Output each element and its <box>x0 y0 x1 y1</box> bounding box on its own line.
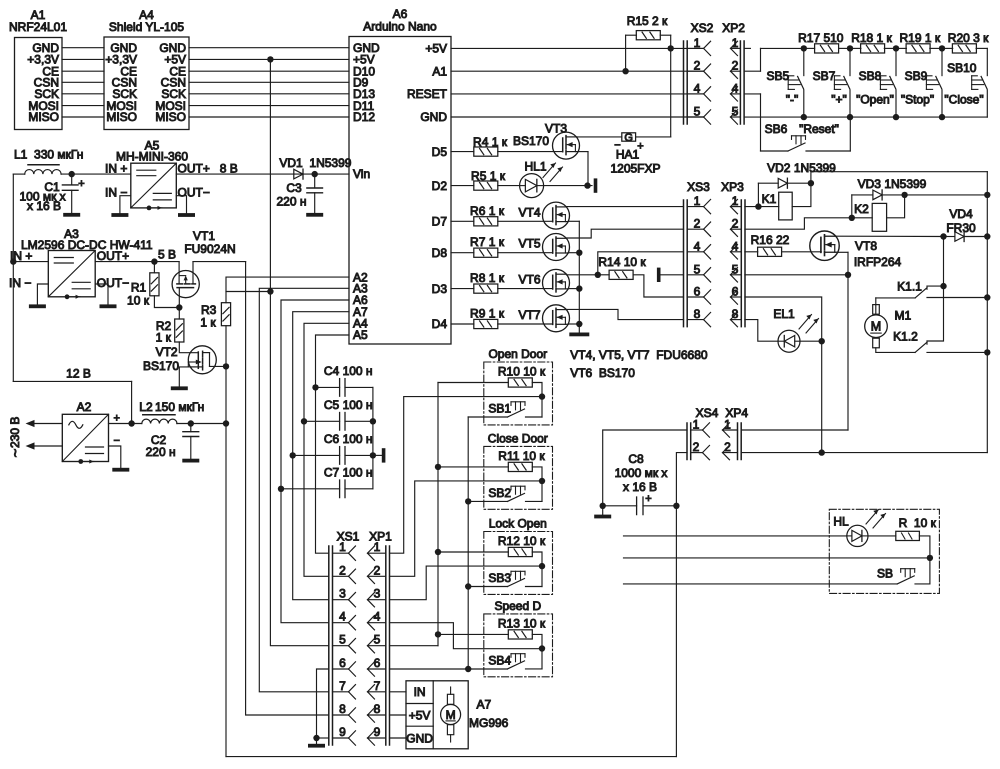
svg-text:2: 2 <box>732 217 739 231</box>
svg-text:SB8: SB8 <box>859 69 882 83</box>
svg-text:FU9024N: FU9024N <box>184 242 235 256</box>
svg-text:SB3: SB3 <box>488 571 511 585</box>
resistor R7 <box>474 248 498 257</box>
wire 12V from left edge <box>13 380 131 382</box>
wire A5 OUT- to ground <box>176 196 186 213</box>
svg-text:A2: A2 <box>77 400 92 414</box>
svg-text:XS3: XS3 <box>687 180 710 194</box>
wire K1 right up to supply rail <box>792 172 987 207</box>
svg-text:Vin: Vin <box>353 167 370 181</box>
svg-text:R12 10 к: R12 10 к <box>498 534 546 548</box>
transistor VT8 IRFP264 <box>810 231 839 260</box>
svg-text:6: 6 <box>732 285 739 299</box>
svg-text:IN: IN <box>414 685 426 699</box>
wire VT8 drain to VD4 <box>836 235 944 237</box>
wire D5 to R4 <box>451 151 474 153</box>
wire D7 to R6 <box>451 220 474 222</box>
node +5V on A4-A6 wire <box>267 56 273 62</box>
wire XP3 pin1 to K1 <box>745 206 779 208</box>
svg-text:XP1: XP1 <box>369 530 392 544</box>
svg-text:4: 4 <box>339 610 346 624</box>
svg-text:1 к: 1 к <box>200 316 216 330</box>
svg-text:VT8: VT8 <box>855 239 877 253</box>
wire A5 IN- to ground <box>120 196 131 213</box>
svg-text:BS170: BS170 <box>513 134 549 148</box>
svg-text:+: + <box>645 493 651 505</box>
block A7 MG996 <box>406 681 468 749</box>
ladder bottom rail (GND from XP2 pin5) <box>744 116 987 118</box>
wire VT4 source to rail <box>568 220 579 222</box>
capacitor C6 <box>290 452 296 458</box>
dashed box Close Door <box>484 446 553 509</box>
wire L2 to C2 node <box>177 423 226 425</box>
source rail of VT4-VT7 <box>578 221 580 332</box>
svg-text:C8: C8 <box>628 452 644 466</box>
diode VD2 1N5399 <box>757 183 759 206</box>
button SB7 <box>849 48 851 75</box>
wire A5 OUT+ 8V to Vin <box>176 173 349 175</box>
svg-text:GND: GND <box>420 110 447 124</box>
svg-text:R20 3 к: R20 3 к <box>948 31 989 45</box>
contact K1.2 <box>876 348 915 353</box>
svg-text:VT6 BS170: VT6 BS170 <box>570 366 635 380</box>
capacitor C5 <box>301 418 307 424</box>
svg-text:K2: K2 <box>854 202 869 216</box>
svg-text:BS170: BS170 <box>143 359 179 373</box>
svg-text:8 В: 8 В <box>220 161 238 175</box>
svg-text:2: 2 <box>693 440 700 454</box>
wire R to corner <box>919 536 930 584</box>
svg-text:+: + <box>78 178 84 190</box>
svg-text:+: + <box>114 413 120 425</box>
wire XP1 pin3 riser <box>390 566 543 600</box>
svg-text:M: M <box>446 708 456 722</box>
svg-text:R14 10 к: R14 10 к <box>598 255 646 269</box>
svg-text:R7 1 к: R7 1 к <box>470 235 505 249</box>
svg-text:OUT−: OUT− <box>97 276 129 290</box>
svg-text:6: 6 <box>694 285 701 299</box>
diode VD4 FR30 <box>944 236 955 238</box>
button SB <box>897 576 914 584</box>
svg-text:R13 10 к: R13 10 к <box>498 616 546 630</box>
wire XP4 pin2 to right rail <box>741 452 987 454</box>
resistor R16 <box>758 247 782 256</box>
svg-text:8: 8 <box>339 702 346 716</box>
svg-text:+5V: +5V <box>409 708 431 722</box>
resistor R15 <box>636 31 660 40</box>
svg-text:SB9: SB9 <box>905 69 928 83</box>
wire K1.2 lower contact to rail <box>927 351 987 353</box>
wire A2 out- to ground <box>109 446 121 468</box>
svg-text:IRFP264: IRFP264 <box>854 255 902 269</box>
+5V vertical to XS1 pin5 <box>270 59 328 645</box>
wire VT6 drain to node <box>567 274 598 276</box>
svg-text:VD3 1N5399: VD3 1N5399 <box>858 177 927 191</box>
wire VT1 gate down <box>178 288 180 308</box>
svg-text:9: 9 <box>374 725 381 739</box>
svg-text:VT1: VT1 <box>193 229 215 243</box>
block A4 Shield YL-105 <box>104 37 189 130</box>
button SB6 Reset <box>744 93 760 95</box>
svg-text:HL: HL <box>833 515 849 529</box>
svg-text:R18 1 к: R18 1 к <box>851 31 892 45</box>
wire K2 right to VD3 cathode line <box>887 195 905 218</box>
svg-text:MISO: MISO <box>28 110 59 124</box>
wire VT5 source to rail <box>568 252 579 254</box>
svg-text:220 н: 220 н <box>146 445 176 459</box>
wire R12 to junction <box>532 552 542 587</box>
svg-text:5: 5 <box>694 262 701 276</box>
svg-text:HL1: HL1 <box>524 160 546 174</box>
svg-text:C3: C3 <box>286 181 302 195</box>
svg-text:R4 1 к: R4 1 к <box>473 135 508 149</box>
wire A3 OUT- to ground <box>95 284 108 304</box>
svg-text:"Reset": "Reset" <box>799 122 839 136</box>
svg-text:2: 2 <box>732 59 739 73</box>
svg-text:SB7: SB7 <box>813 69 836 83</box>
resistor R3 <box>221 303 230 326</box>
input arrows 230V <box>32 423 62 425</box>
wire XP1 pin9 to A7 GND <box>390 737 407 739</box>
wire VD4 node down to K1.1 contact <box>943 237 945 287</box>
resistor R6 <box>474 217 498 226</box>
wire R11 to junction <box>532 467 542 502</box>
wires A1 to A4 <box>62 47 104 49</box>
svg-text:OUT+: OUT+ <box>97 249 129 263</box>
wire A7 pin to XS1 pin3 <box>293 312 349 600</box>
svg-text:VT2: VT2 <box>156 345 178 359</box>
resistor R2 <box>175 319 184 342</box>
button SB10 <box>986 48 988 75</box>
svg-text:HA1: HA1 <box>616 148 640 162</box>
wire R9 to VT7 gate <box>498 323 553 325</box>
wire VT2 source to ground <box>179 367 188 387</box>
svg-text:VT6: VT6 <box>518 273 540 287</box>
svg-text:4: 4 <box>732 81 739 95</box>
svg-text:1: 1 <box>693 418 700 432</box>
wire XP1 pin6 to SB4 <box>390 668 508 670</box>
button SB9 <box>941 48 943 75</box>
wire VT3 source down <box>578 151 588 153</box>
wire VT1 drain 5V to XS1 pin8 <box>246 262 329 715</box>
dashed box Open Door <box>484 362 553 425</box>
svg-text:1: 1 <box>732 194 739 208</box>
svg-text:6: 6 <box>339 656 346 670</box>
wire VT6 source to rail <box>568 288 579 290</box>
wire XS4 pin2 to C8 right <box>676 453 687 506</box>
wire K1.1 lower contact to rail <box>927 297 987 299</box>
svg-text:VT5: VT5 <box>518 237 540 251</box>
svg-text:8: 8 <box>732 307 739 321</box>
svg-text:EL1: EL1 <box>773 307 795 321</box>
wire HL1 to common <box>544 185 592 187</box>
wire GND A6 to XS2 <box>451 116 704 118</box>
wire XP3 pin4 to R16 <box>745 251 758 253</box>
svg-text:1205FXP: 1205FXP <box>610 162 660 176</box>
capacitor C1 <box>71 174 73 185</box>
transistor VT6 <box>543 269 570 296</box>
svg-text:1000 мк х: 1000 мк х <box>615 466 668 480</box>
wire A3 pin to XS1 pin7 <box>259 288 349 692</box>
svg-text:D7: D7 <box>432 215 448 229</box>
wire R5 to HL1 <box>498 185 520 187</box>
LED HL <box>847 525 868 546</box>
LED EL1 <box>778 330 800 352</box>
wire D8 to R7 <box>451 252 474 254</box>
wire A3 IN- to ground <box>37 284 48 304</box>
svg-text:M: M <box>871 320 881 334</box>
svg-text:D5: D5 <box>432 145 448 159</box>
wire VT7 drain to XS3 pin8 <box>567 309 684 319</box>
resistor R20 <box>942 47 953 49</box>
svg-text:5: 5 <box>694 105 701 119</box>
resistor R14 <box>598 274 609 276</box>
block A1 NRF24L01 <box>15 38 63 130</box>
svg-text:9: 9 <box>339 725 346 739</box>
dashed box Lock Open <box>484 532 553 595</box>
svg-text:2: 2 <box>374 563 381 577</box>
ground under C1 <box>63 213 80 217</box>
wire VT8 source to XP3 pin5 and XP4 pin1 <box>745 274 848 276</box>
svg-text:"Open": "Open" <box>856 93 894 107</box>
svg-text:SB2: SB2 <box>488 486 511 500</box>
button SB3 <box>468 586 507 588</box>
svg-text:+5V: +5V <box>425 42 447 56</box>
svg-text:R 10 к: R 10 к <box>899 516 937 530</box>
svg-text:OUT+: OUT+ <box>178 161 210 175</box>
resistor R13 <box>438 633 508 635</box>
svg-text:VT4: VT4 <box>518 205 540 219</box>
wire VT7 source to rail <box>568 323 579 325</box>
transistor VT7 <box>543 305 570 332</box>
svg-text:R6 1 к: R6 1 к <box>470 204 505 218</box>
svg-text:MG996: MG996 <box>469 716 509 730</box>
svg-text:R11 10 к: R11 10 к <box>498 449 545 463</box>
transistor VT3 BS170 <box>553 132 580 159</box>
svg-text:GND: GND <box>406 732 433 746</box>
wires A4 to A6 <box>189 47 349 49</box>
wire XP1 pin4 jog <box>390 623 543 649</box>
svg-text:C6 100 н: C6 100 н <box>324 432 373 446</box>
wire XP3 pin6 down to EL1 node <box>745 297 822 453</box>
wire K1.1 node down to K1.2 contact <box>927 286 944 341</box>
svg-text:SB6: SB6 <box>765 122 788 136</box>
wire D3 to R8 <box>451 288 474 290</box>
wire R15 right down to HA1 <box>660 34 670 36</box>
svg-text:MISO: MISO <box>155 110 186 124</box>
wire RESET A6 to XS2 <box>451 93 704 95</box>
svg-text:SB1: SB1 <box>488 402 511 416</box>
svg-text:Speed D: Speed D <box>494 599 541 613</box>
pull-up rail for R10-R13 <box>437 383 439 646</box>
ladder top rail <box>761 47 804 49</box>
wire D4 to R9 <box>451 323 474 325</box>
svg-text:MISO: MISO <box>106 110 137 124</box>
svg-text:1: 1 <box>339 540 346 554</box>
wire XS1 pin9 to ground <box>317 737 329 739</box>
svg-text:K1.1: K1.1 <box>897 280 922 294</box>
svg-text:1: 1 <box>694 194 701 208</box>
relay coil K1 <box>779 192 793 220</box>
button SB1 <box>468 416 507 418</box>
svg-text:10 к: 10 к <box>127 294 150 308</box>
wire R14 to XS3 pin6 <box>633 275 683 297</box>
svg-text:C7 100 н: C7 100 н <box>324 466 373 480</box>
wire R13 to junction <box>532 634 542 669</box>
wire VT3 drain to HA1 <box>577 136 622 138</box>
button SB2 <box>468 500 507 502</box>
svg-text:2: 2 <box>724 440 731 454</box>
wire XP3 pin8 to EL1 anode <box>745 320 778 342</box>
svg-text:R5 1 к: R5 1 к <box>471 169 506 183</box>
svg-text:D8: D8 <box>432 246 448 260</box>
svg-text:SB: SB <box>877 567 893 581</box>
ground under VT rail <box>569 333 589 337</box>
svg-text:R10 10 к: R10 10 к <box>498 365 546 379</box>
dashed box Speed D <box>484 614 553 677</box>
svg-text:D12: D12 <box>353 110 375 124</box>
svg-text:1: 1 <box>694 36 701 50</box>
bottom rail <box>226 756 676 758</box>
wire A3 OUT+ 5V <box>95 261 179 263</box>
wire A4 pin to XS1 pin2 <box>304 323 349 576</box>
wire A6 pin to XS1 pin4 <box>281 300 349 623</box>
ground under C8 <box>602 506 604 515</box>
svg-text:OUT−: OUT− <box>178 186 210 200</box>
svg-text:SB4: SB4 <box>488 653 511 667</box>
servo motor symbol in A7 <box>441 705 461 725</box>
left edge vertical wire <box>12 174 14 381</box>
wire C8 right down to bottom rail <box>675 506 677 757</box>
wire R1 bottom to node <box>154 296 179 308</box>
resistor R19 <box>896 47 906 49</box>
resistor R 10k <box>896 531 920 540</box>
wire VT4 drain to XS3 pin1 <box>567 206 684 208</box>
wire R2 to VT2 gate <box>179 342 198 353</box>
wire R7 to VT5 gate <box>498 252 553 254</box>
resistor R18 <box>850 47 861 49</box>
resistor R11 <box>438 466 508 468</box>
svg-text:5: 5 <box>732 262 739 276</box>
wire VT5 drain to XS3 pin2 <box>567 229 684 238</box>
legend dashed box <box>829 509 939 593</box>
buzzer HA1 1205FXP <box>622 133 636 141</box>
wire XP1 pin5 stub to rail <box>390 645 439 647</box>
wire R4 to VT3 gate <box>498 151 563 153</box>
wire R6 to VT4 gate <box>498 220 553 222</box>
svg-text:5: 5 <box>374 633 381 647</box>
wire EL1 cathode to node <box>800 340 822 342</box>
svg-text:12 В: 12 В <box>66 367 91 381</box>
resistor R12 <box>438 551 508 553</box>
svg-text:SB10: SB10 <box>947 61 977 75</box>
resistor R1 <box>153 262 155 273</box>
svg-text:VD1 1N5399: VD1 1N5399 <box>279 156 351 170</box>
wire XS1 pin6 to ground node <box>317 669 329 738</box>
wire A1 A6 to XS2 <box>451 70 704 72</box>
resistor R9 <box>474 319 498 328</box>
wire XP2 pin2 to ladder top <box>744 70 760 72</box>
svg-text:8: 8 <box>694 307 701 321</box>
svg-text:4: 4 <box>694 239 701 253</box>
right bus of C4-C7 <box>372 387 374 488</box>
svg-text:1: 1 <box>732 36 739 50</box>
block A6 Arduino Nano <box>349 37 451 345</box>
resistor R4 <box>474 147 498 156</box>
svg-text:M1: M1 <box>895 309 912 323</box>
wire A2 pin to R3 column <box>226 277 349 291</box>
svg-text:3: 3 <box>374 587 381 601</box>
svg-text:VT4, VT5, VT7 FDU6680: VT4, VT5, VT7 FDU6680 <box>570 348 708 362</box>
wire middle stub <box>624 557 930 559</box>
wire L1 to A5 <box>61 173 131 175</box>
resistor R17 <box>804 47 815 49</box>
svg-text:A1: A1 <box>432 64 447 78</box>
svg-text:D2: D2 <box>432 179 448 193</box>
svg-text:VT7: VT7 <box>518 308 540 322</box>
wire XP1 pin7 to A7 IN <box>390 691 407 693</box>
svg-text:XS2: XS2 <box>691 21 714 35</box>
wire XP1 pin1 riser <box>390 397 543 554</box>
svg-text:150 мкГн: 150 мкГн <box>155 400 204 414</box>
svg-text:4: 4 <box>374 610 381 624</box>
capacitor C4 <box>312 384 318 390</box>
svg-text:C4 100 н: C4 100 н <box>324 364 373 378</box>
svg-text:L1 330 мкГн: L1 330 мкГн <box>14 148 83 162</box>
wire XS4 pin1 left down <box>603 430 687 506</box>
LED HL1 <box>520 174 544 198</box>
svg-text:7: 7 <box>374 679 381 693</box>
svg-text:NRF24L01: NRF24L01 <box>9 20 67 34</box>
svg-text:"-": "-" <box>786 93 799 107</box>
button SB4 <box>508 661 525 669</box>
common terminal bar at C6 row <box>373 454 382 456</box>
svg-text:Arduino Nano: Arduino Nano <box>363 20 437 34</box>
svg-text:R8 1 к: R8 1 к <box>470 271 505 285</box>
contact K1.1 <box>875 305 877 315</box>
svg-text:SB5: SB5 <box>766 69 789 83</box>
svg-text:2: 2 <box>694 59 701 73</box>
common terminal bar at HL1 <box>594 178 598 192</box>
capacitor C7 <box>278 486 284 492</box>
svg-text:1: 1 <box>374 540 381 554</box>
wire D2 to R5 <box>451 185 474 187</box>
svg-text:2: 2 <box>694 217 701 231</box>
svg-text:FR30: FR30 <box>946 221 976 235</box>
button SB5 <box>803 48 805 75</box>
svg-text:IN −: IN − <box>105 186 127 200</box>
svg-text:R15 2 к: R15 2 к <box>627 14 668 28</box>
svg-text:"Close": "Close" <box>944 93 983 107</box>
svg-text:Lock Open: Lock Open <box>489 517 547 531</box>
svg-text:8: 8 <box>374 702 381 716</box>
svg-text:IN +: IN + <box>10 249 32 263</box>
ground under C3 <box>306 213 323 217</box>
capacitor C3 <box>314 174 316 188</box>
transistor VT4 <box>543 202 570 229</box>
svg-text:−: − <box>114 435 120 447</box>
wire R15 left to A1 line <box>626 34 637 36</box>
resistor R8 <box>474 284 498 293</box>
diode VD3 1N5399 <box>851 195 853 218</box>
svg-text:6: 6 <box>374 656 381 670</box>
wire R3 bottom / A2 net down to bottom rail <box>225 326 227 367</box>
svg-text:G: G <box>624 132 633 144</box>
wire HL to R <box>868 535 896 537</box>
svg-text:L2: L2 <box>139 400 153 414</box>
relay coil K2 <box>872 203 886 231</box>
diode VD1 1N5399 <box>294 169 303 179</box>
